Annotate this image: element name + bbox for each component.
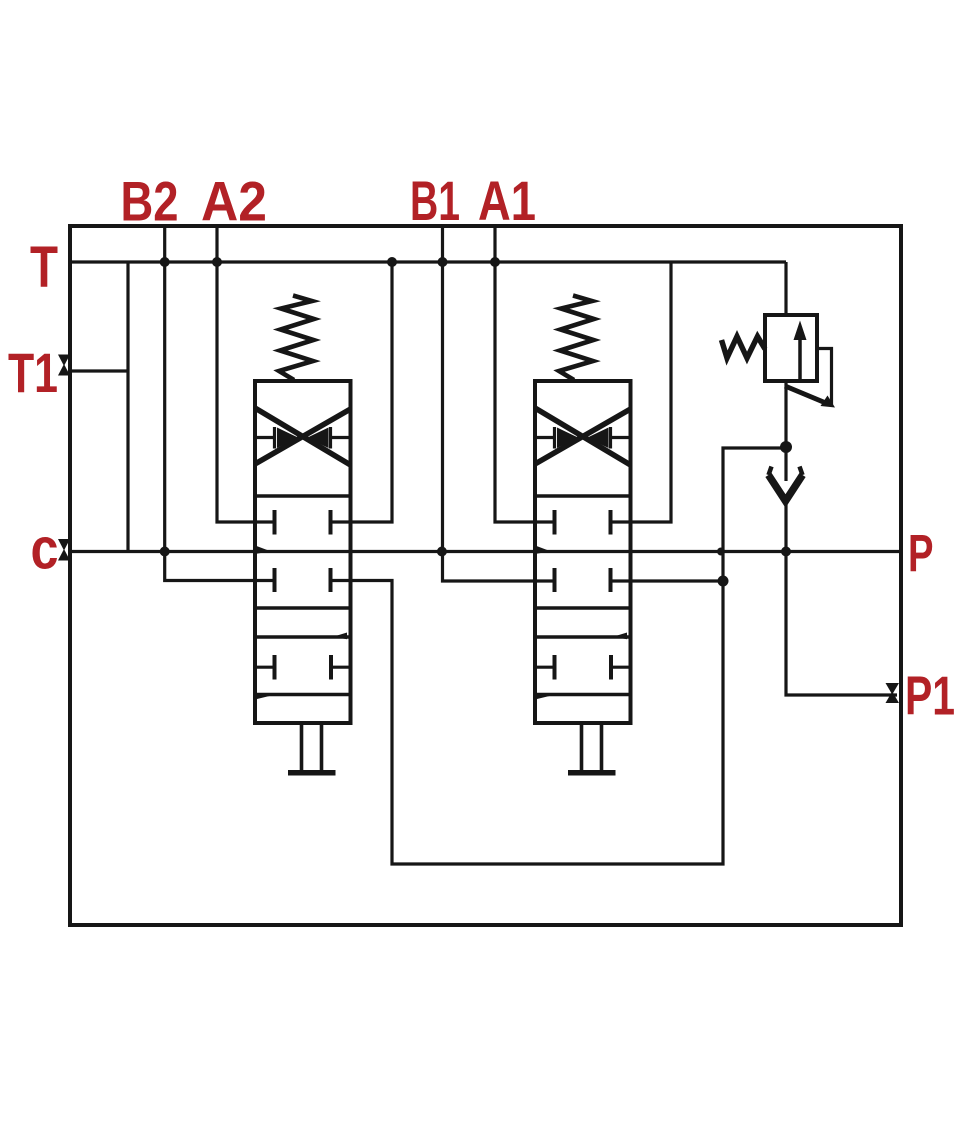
svg-text:A1: A1	[478, 169, 536, 232]
svg-text:P: P	[908, 525, 934, 584]
svg-text:B1: B1	[410, 169, 460, 232]
svg-text:T: T	[30, 235, 58, 300]
svg-text:P1: P1	[905, 665, 955, 727]
svg-text:c: c	[31, 517, 59, 582]
svg-text:B2: B2	[121, 170, 179, 233]
svg-text:T1: T1	[8, 341, 58, 404]
svg-text:A2: A2	[201, 170, 267, 233]
